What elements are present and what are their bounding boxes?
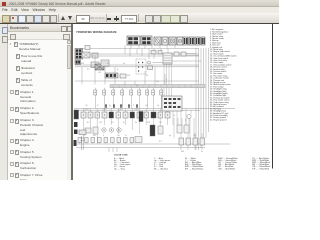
ground lug bbox=[79, 130, 86, 135]
switch M9 bbox=[137, 112, 142, 118]
svg-text:B/W: B/W bbox=[169, 105, 173, 107]
socket P9 bbox=[130, 138, 134, 143]
connector block B bbox=[141, 36, 152, 45]
panel/document separator bbox=[71, 24, 73, 180]
legs from lamp row to bus 4 bbox=[95, 88, 161, 109]
diodes inside CDI bbox=[138, 62, 144, 73]
switch M10 bbox=[144, 112, 149, 118]
switch sym T8 bbox=[152, 90, 155, 95]
svg-text:R/Y: R/Y bbox=[87, 69, 91, 71]
connector block J bbox=[201, 37, 205, 45]
dark x connector bbox=[95, 64, 104, 70]
socket P2 bbox=[85, 138, 89, 143]
wire bus 5 bbox=[74, 109, 200, 111]
svg-text:L/W: L/W bbox=[98, 72, 101, 74]
CDI unit dashed box bbox=[136, 59, 146, 74]
minus bbox=[107, 18, 111, 20]
connector block C bbox=[154, 37, 161, 45]
svg-text:Ch: Ch bbox=[173, 115, 175, 117]
right icon group bbox=[145, 15, 153, 23]
switch S3 bbox=[193, 138, 198, 145]
scrollbar bbox=[67, 40, 71, 180]
svg-text:YFM660FWA WIRING DIAGRAM: YFM660FWA WIRING DIAGRAM bbox=[76, 31, 116, 34]
bottom accessory row bbox=[78, 137, 142, 143]
switch M2 bbox=[88, 112, 93, 118]
x-hatch connector bbox=[82, 52, 90, 58]
svg-text:Y/R ..... Yellow/Red: Y/R ..... Yellow/Red bbox=[252, 168, 269, 170]
connector block G bbox=[183, 37, 188, 45]
wire bus 3b bbox=[75, 80, 199, 82]
svg-text:Dg: Dg bbox=[109, 105, 111, 107]
switch sym T4 bbox=[121, 90, 124, 95]
drops into table zone bbox=[109, 148, 117, 153]
terminal box bbox=[91, 62, 99, 68]
fan motor bbox=[109, 128, 113, 132]
menu bar bbox=[0, 7, 279, 13]
connector block E bbox=[169, 37, 176, 45]
right harness bundle bbox=[196, 48, 209, 150]
flasher relay bbox=[85, 128, 91, 133]
switch sym T9 bbox=[160, 90, 163, 95]
svg-text:Y/B: Y/B bbox=[159, 122, 162, 124]
main switch block bbox=[163, 53, 172, 64]
rectifier box bbox=[148, 61, 151, 64]
connector row drops bbox=[125, 49, 168, 60]
switch M7 bbox=[123, 112, 128, 118]
socket P7 bbox=[117, 138, 121, 143]
bookmarks panel bbox=[8, 24, 71, 180]
wire bus 3 bbox=[75, 66, 199, 68]
extra right-mid verticals bbox=[174, 118, 194, 138]
svg-text:Gy ..... Gray: Gy ..... Gray bbox=[114, 168, 125, 170]
relay M5 bbox=[109, 112, 114, 118]
harness band bbox=[110, 85, 205, 88]
svg-text:B/L: B/L bbox=[146, 75, 149, 77]
wire bus under connectors bbox=[80, 48, 199, 50]
switch row legs bbox=[181, 133, 202, 150]
connector block I bbox=[195, 37, 200, 45]
zoom box bbox=[121, 15, 137, 23]
connector pin hatching bbox=[128, 37, 205, 44]
connector block A bbox=[127, 36, 140, 45]
switch M4 bbox=[102, 112, 107, 118]
inline coupler bbox=[92, 53, 98, 58]
color code table bbox=[114, 155, 270, 171]
switch M1 bbox=[81, 112, 86, 118]
svg-text:Br: Br bbox=[123, 122, 125, 124]
svg-text:W: W bbox=[97, 105, 99, 107]
switch drop wires bbox=[164, 64, 172, 109]
svg-text:L/B: L/B bbox=[117, 135, 119, 137]
middle component row bbox=[74, 110, 170, 119]
svg-text:Sb: Sb bbox=[123, 63, 125, 65]
switch S4 bbox=[200, 138, 205, 145]
svg-text:B/L: B/L bbox=[83, 135, 86, 137]
crossing wire pair bbox=[81, 136, 85, 150]
svg-text:R: R bbox=[103, 135, 105, 137]
battery bbox=[74, 122, 78, 127]
wire color labels bbox=[81, 63, 203, 153]
switch sym T3 bbox=[112, 90, 115, 95]
pilot box bbox=[85, 46, 90, 50]
switch S2 bbox=[186, 138, 191, 145]
main harness buses bbox=[74, 54, 235, 148]
switch sym T1 bbox=[94, 90, 97, 95]
frame right border bbox=[272, 24, 274, 169]
svg-text:Br: Br bbox=[117, 69, 119, 71]
title bar bbox=[0, 0, 279, 7]
gauge box bbox=[184, 125, 189, 133]
plus bbox=[114, 18, 119, 20]
svg-text:Gy: Gy bbox=[201, 151, 203, 153]
header bbox=[8, 24, 71, 32]
switch sym T2 bbox=[103, 90, 106, 95]
socket P5 bbox=[104, 138, 108, 143]
wire drops below connector row bbox=[80, 45, 199, 49]
parts legend list bbox=[210, 28, 236, 121]
wire drops to lamp row bbox=[82, 55, 165, 85]
svg-text:B/Y ..... Black/Yellow: B/Y ..... Black/Yellow bbox=[185, 168, 204, 170]
socket P3 bbox=[91, 138, 95, 143]
svg-text:B/W: B/W bbox=[81, 63, 85, 65]
wire bus 6 bbox=[76, 143, 230, 145]
wires from main switch to bundle bbox=[172, 54, 201, 62]
switch sym T5 bbox=[130, 90, 133, 95]
connector K1 grid bbox=[75, 49, 83, 60]
svg-text:R/Y: R/Y bbox=[87, 122, 91, 124]
connector block H bbox=[189, 37, 194, 45]
switch side connectors bbox=[174, 52, 179, 56]
svg-text:W: W bbox=[125, 135, 127, 137]
wire bus 2 bbox=[75, 64, 199, 66]
wire bus 4 bbox=[74, 108, 235, 110]
svg-text:Sb: Sb bbox=[135, 122, 137, 124]
switch sym T7 bbox=[146, 90, 149, 95]
svg-text:L/W ..... Blue/White: L/W ..... Blue/White bbox=[218, 167, 236, 170]
second component row bbox=[85, 125, 163, 136]
socket P8 bbox=[124, 138, 128, 143]
speed sensor bbox=[187, 114, 191, 118]
switch M12 bbox=[158, 112, 163, 118]
svg-text:COLOR CODE: COLOR CODE bbox=[114, 155, 128, 157]
svg-text:B/W: B/W bbox=[181, 151, 185, 153]
svg-text:P: P bbox=[133, 105, 134, 107]
svg-text:Dg: Dg bbox=[169, 135, 171, 137]
svg-text:W/R: W/R bbox=[127, 75, 131, 77]
relay tall dark bbox=[139, 112, 143, 122]
page box bbox=[76, 15, 90, 23]
inline coupler pairs on drops bbox=[105, 105, 138, 108]
connector block F bbox=[177, 37, 183, 45]
panel toolbar bbox=[8, 32, 71, 40]
relay M11 bbox=[151, 112, 156, 118]
junction box bbox=[135, 137, 142, 143]
ground lug bottom-left bbox=[74, 140, 77, 146]
svg-text:42. Engine ground: 42. Engine ground bbox=[210, 119, 226, 121]
diode block bbox=[93, 127, 98, 134]
handlebar switch row bbox=[179, 138, 205, 145]
document: white page with wiring diagram bbox=[73, 24, 279, 180]
nav arrows bbox=[61, 16, 65, 20]
nav pane strip bbox=[0, 24, 8, 180]
svg-text:R: R bbox=[166, 79, 168, 81]
harness joint connector bbox=[105, 73, 118, 78]
svg-text:G/B: G/B bbox=[156, 81, 159, 83]
fuse holder bbox=[74, 130, 78, 135]
svg-text:G/Y: G/Y bbox=[111, 122, 115, 124]
connector block D bbox=[162, 37, 168, 45]
middle row legs bbox=[84, 109, 168, 145]
socket P4 bbox=[98, 138, 102, 143]
switch M6 bbox=[116, 112, 121, 118]
switch M3 bbox=[95, 112, 100, 118]
starter motor bbox=[117, 128, 121, 132]
wire bus 1 bbox=[90, 53, 199, 55]
svg-text:G/Y: G/Y bbox=[107, 63, 111, 65]
switch S1 bbox=[179, 138, 184, 145]
connector K2 bbox=[75, 60, 81, 65]
bottom row legs bbox=[80, 143, 132, 145]
tree bbox=[8, 40, 66, 180]
connector M0 bbox=[74, 110, 79, 119]
svg-text:Gy: Gy bbox=[157, 105, 159, 107]
combination meter box bbox=[162, 96, 182, 111]
sub boxes under connector row bbox=[151, 51, 156, 55]
socket P6 bbox=[111, 138, 115, 143]
svg-text:L/B: L/B bbox=[85, 105, 87, 107]
relay M8 bbox=[130, 112, 135, 118]
svg-text:Y/B: Y/B bbox=[136, 85, 139, 87]
svg-text:Sb ..... Sky blue: Sb ..... Sky blue bbox=[154, 168, 169, 170]
toolbar icons left bbox=[2, 15, 10, 23]
svg-text:G/B: G/B bbox=[93, 135, 96, 137]
regulator box bbox=[101, 60, 109, 66]
svg-text:O/G: O/G bbox=[145, 105, 149, 107]
svg-text:R/Y: R/Y bbox=[159, 141, 163, 143]
meter box bbox=[177, 125, 182, 133]
socket P1 bbox=[78, 138, 82, 143]
svg-text:L/W: L/W bbox=[99, 122, 102, 124]
spark plug bbox=[158, 126, 163, 134]
switch sym T6 bbox=[138, 90, 141, 95]
ignition coil bbox=[150, 125, 155, 136]
horn bbox=[102, 128, 106, 132]
switch M13 bbox=[165, 112, 170, 118]
wire bus 7 bbox=[76, 147, 205, 149]
toolbar bbox=[0, 13, 279, 24]
mid drops bbox=[173, 109, 191, 126]
svg-text:W/R: W/R bbox=[147, 122, 151, 124]
comb ticks under bus 4 bbox=[85, 109, 138, 111]
